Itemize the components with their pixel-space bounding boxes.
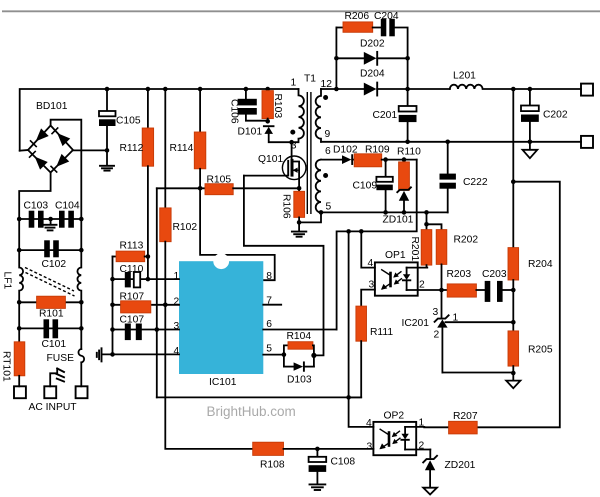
ground at pin 4 row (sideways) <box>97 348 102 361</box>
svg-text:C108: C108 <box>331 457 356 468</box>
capacitor C110 <box>125 272 140 287</box>
resistor R107 <box>121 301 151 313</box>
node: C102 rail right <box>79 248 84 253</box>
svg-text:C101: C101 <box>42 339 67 350</box>
wire: Q101 gate loop down to drive node <box>244 176 324 356</box>
ground below C108 <box>310 484 326 490</box>
wire: return rail (T1 pin9 to output) <box>321 141 581 143</box>
diode bottom-right arrow <box>50 154 69 173</box>
svg-text:D202: D202 <box>360 39 385 50</box>
svg-text:1: 1 <box>291 78 297 89</box>
svg-text:2: 2 <box>174 296 180 307</box>
diode D202 <box>336 52 407 65</box>
node: cap rail mid <box>48 217 53 222</box>
resistor R204 <box>508 182 519 290</box>
node: C202 top <box>528 87 533 92</box>
svg-text:IC201: IC201 <box>402 318 430 329</box>
AC input terminal 3 <box>76 386 88 398</box>
node: R103/C106/D101 <box>265 119 270 124</box>
svg-text:BrightHub.com: BrightHub.com <box>207 404 296 419</box>
wire: pin 6 row to ZD101 bus <box>263 329 336 331</box>
wire: pin 1 row <box>113 278 180 280</box>
node: bus/pin3 row <box>110 327 115 332</box>
optocoupler OP2 <box>373 422 430 455</box>
svg-text:LF1: LF1 <box>2 272 13 290</box>
resistor R111 <box>349 306 367 397</box>
wire: pin 5 stub <box>263 354 284 356</box>
svg-text:R207: R207 <box>453 411 478 422</box>
AC input terminal 1 <box>14 386 26 398</box>
svg-text:2: 2 <box>434 330 440 341</box>
wire: OP1 pin4 up to feed line <box>361 231 375 267</box>
resistor R113 <box>113 251 148 262</box>
wire: right snubber vertical <box>407 58 409 89</box>
line filter LF1 right winding <box>77 250 81 302</box>
node: snubber left bottom <box>334 87 339 92</box>
svg-text:OP1: OP1 <box>385 250 406 261</box>
svg-text:C203: C203 <box>482 269 507 280</box>
svg-text:C102: C102 <box>42 259 67 270</box>
phase dot secondary upper <box>323 95 328 100</box>
diode top-left arrow <box>30 128 49 147</box>
resistor R105 <box>157 184 299 195</box>
line filter LF1 left winding <box>19 250 23 302</box>
AC input terminal 2 <box>44 386 56 398</box>
wire: IC201 anode to R205 bottom <box>442 372 513 375</box>
fuse <box>78 328 84 386</box>
svg-text:AC INPUT: AC INPUT <box>29 402 78 413</box>
node: R104/D103 left <box>282 352 287 357</box>
resistor R101 <box>37 296 66 308</box>
svg-text:D101: D101 <box>238 127 263 138</box>
node: divider tap <box>511 320 516 325</box>
svg-text:R205: R205 <box>528 345 553 356</box>
svg-text:T1: T1 <box>304 74 316 85</box>
node: rail at C106 <box>244 87 249 92</box>
svg-text:D103: D103 <box>287 375 312 386</box>
svg-text:R111: R111 <box>370 327 393 338</box>
inductor L201 <box>450 85 581 89</box>
node: return at C201 <box>405 140 410 145</box>
wire: bridge right vertex to C105 node <box>73 149 107 151</box>
ground below C105 <box>100 150 114 170</box>
primary winding <box>292 89 304 142</box>
svg-text:L201: L201 <box>453 71 476 82</box>
svg-text:R103: R103 <box>272 94 283 119</box>
optocoupler OP1 <box>375 262 442 295</box>
svg-text:C110: C110 <box>120 264 144 275</box>
svg-text:4: 4 <box>366 418 372 429</box>
svg-text:C201: C201 <box>373 110 398 121</box>
diode bottom-left arrow <box>29 151 48 170</box>
node: R101 rail right <box>79 300 84 305</box>
node: return at C222 <box>445 140 450 145</box>
node: C203/R204 <box>511 288 516 293</box>
phase dot secondary lower <box>323 173 328 178</box>
node: rail at R201 <box>424 210 429 215</box>
wire: R105 row corner down (pin3 net bus) <box>156 188 158 397</box>
node: R104/D103 right (gate drive) <box>311 353 316 358</box>
svg-text:C222: C222 <box>463 177 488 188</box>
wire: R102 net down to R108 row <box>165 305 252 449</box>
mosfet Q101 <box>244 142 306 188</box>
wire: R106 bottom jog to T1 pin5 <box>299 212 321 222</box>
wire: C101 rail <box>19 302 81 328</box>
resistor R202 <box>427 224 447 290</box>
svg-text:6: 6 <box>266 319 272 330</box>
node: pin2 row / R102 bus <box>163 303 168 308</box>
node: Q101 source / R106 top <box>297 186 302 191</box>
node: L201 out / right bus <box>511 87 516 92</box>
svg-text:BD101: BD101 <box>36 101 68 112</box>
wire: pin3 net horizontal to R111 <box>157 396 361 398</box>
node: C105/bridge <box>105 148 110 153</box>
ground triangle below ZD201 <box>423 488 437 495</box>
wire: OP2 feed bus <box>349 231 374 427</box>
svg-text:FUSE: FUSE <box>47 353 75 364</box>
node: C101 rail left <box>17 326 22 331</box>
LF1 core dashed lines <box>25 268 75 297</box>
svg-text:R114: R114 <box>170 143 194 154</box>
node: rail at R114 <box>198 87 203 92</box>
node: pin3 row / pin3 bus <box>155 327 160 332</box>
top divider line <box>2 10 600 12</box>
zener ZD201 <box>423 456 437 487</box>
capacitor C107 <box>125 324 142 341</box>
node: R201/R202 tops <box>424 222 429 227</box>
wire: T1 pin12 to D204 row <box>321 88 336 90</box>
svg-text:ZD201: ZD201 <box>445 460 476 471</box>
transformer T1 <box>290 89 328 214</box>
svg-text:R109: R109 <box>365 145 390 156</box>
diode D103 <box>284 362 314 370</box>
resistor R109 <box>354 154 417 167</box>
node: R114/R105 <box>198 186 203 191</box>
svg-text:1: 1 <box>453 313 459 324</box>
node: cap rail left <box>17 217 22 222</box>
core lines <box>306 92 308 214</box>
svg-text:C104: C104 <box>55 201 80 212</box>
svg-text:R107: R107 <box>120 292 145 303</box>
node: rail at R102 bus <box>163 87 168 92</box>
svg-text:R203: R203 <box>447 269 472 280</box>
capacitor C202 <box>521 89 539 142</box>
wire: C102 rail <box>19 219 81 250</box>
svg-text:C202: C202 <box>543 110 568 121</box>
wire: OP2 pin2 to ZD201 <box>429 450 431 458</box>
svg-text:3: 3 <box>367 442 373 453</box>
ground triangle below C202 <box>523 142 538 158</box>
node: bus/pin2 row <box>110 303 115 308</box>
svg-text:2: 2 <box>419 280 425 291</box>
svg-text:C103: C103 <box>24 201 49 212</box>
wire: R101 rail <box>19 301 81 303</box>
bridge rectifier BD101 <box>28 126 73 173</box>
diode D102 <box>321 155 354 164</box>
node: T1 pin3 / Q101 drain <box>289 140 294 145</box>
node: rail at pin5 <box>319 210 324 215</box>
node: R106 bottom <box>297 220 302 225</box>
output terminal plus <box>581 84 593 96</box>
svg-text:R110: R110 <box>397 147 421 158</box>
resistor R110 <box>399 160 410 191</box>
capacitor C108 <box>309 449 327 484</box>
zener ZD101 <box>397 187 411 212</box>
svg-text:R106: R106 <box>281 194 292 219</box>
svg-text:D204: D204 <box>360 69 385 80</box>
diode top-right arrow <box>51 127 70 146</box>
wire: pin 2 row <box>113 304 180 306</box>
wire: pin 7 stub <box>263 304 281 306</box>
resistor R104 <box>284 342 314 367</box>
svg-text:R108: R108 <box>260 460 285 471</box>
wire: bridge bottom vertex down-left to cap rail <box>19 173 50 220</box>
capacitor C106 <box>238 89 268 121</box>
resistor R103 <box>262 89 273 121</box>
capacitor C201 <box>399 89 417 142</box>
node: R110 top <box>402 157 407 162</box>
node: bus/pin4 row <box>110 352 115 357</box>
node: OP1 feed at pin4 bus <box>359 229 364 234</box>
earth symbol at terminal 2 <box>50 369 64 387</box>
svg-text:R112: R112 <box>120 143 144 154</box>
resistor R114 <box>194 89 206 188</box>
capacitor C103 <box>29 211 44 228</box>
node: snubber left at D202 <box>334 56 339 61</box>
wire: pin8 loop from R114 bus <box>200 188 275 280</box>
wire: left bus <box>112 257 114 355</box>
svg-text:R204: R204 <box>528 259 553 270</box>
svg-text:ZD101: ZD101 <box>383 215 414 226</box>
node: top rail at C105 <box>105 87 110 92</box>
wire: OP2 pin1 to R207 <box>424 426 448 428</box>
svg-text:R101: R101 <box>39 309 64 320</box>
svg-text:2: 2 <box>419 441 425 452</box>
wire: pin 3 row <box>113 329 180 331</box>
wire: R102 top bus <box>164 89 166 208</box>
svg-text:C107: C107 <box>120 315 145 326</box>
capacitor C105 <box>99 89 116 150</box>
svg-text:C204: C204 <box>374 11 399 22</box>
resistor R112 <box>142 89 153 257</box>
svg-text:C109: C109 <box>353 181 378 192</box>
svg-text:Q101: Q101 <box>258 154 283 165</box>
svg-text:3: 3 <box>174 321 180 332</box>
resistor R106 <box>294 188 305 222</box>
node: R113/R112 <box>146 254 151 259</box>
node: return at C202 <box>528 140 533 145</box>
capacitor C104 <box>59 211 74 228</box>
svg-text:8: 8 <box>266 271 272 282</box>
ground triangle below R205 <box>506 373 520 388</box>
svg-text:C106: C106 <box>229 99 240 124</box>
wire: far right bus to R207 row <box>477 182 560 428</box>
diode D204 <box>336 83 449 96</box>
wire: top AC rail <box>20 89 299 151</box>
svg-text:R102: R102 <box>173 222 198 233</box>
capacitor C109 <box>376 160 392 213</box>
node: bus/pin1 row <box>110 277 115 282</box>
ground at C103/C104 midpoint <box>44 219 57 230</box>
resistor R205 <box>508 331 519 373</box>
node: C102 rail left <box>17 248 22 253</box>
secondary upper winding <box>316 89 321 142</box>
node: C108 top <box>315 447 320 452</box>
node: rail at ZD101 <box>402 210 407 215</box>
svg-text:IC101: IC101 <box>209 377 237 388</box>
node: R205 bottom <box>511 371 516 376</box>
node: R101 rail left <box>17 300 22 305</box>
node: rail at R112 <box>146 87 151 92</box>
svg-text:9: 9 <box>325 129 331 140</box>
wire: bridge top vertex to right-down to cap rail <box>51 120 82 219</box>
resistor R108 <box>253 442 374 455</box>
svg-text:R202: R202 <box>454 235 479 246</box>
shunt regulator IC201 <box>435 290 514 373</box>
svg-text:OP2: OP2 <box>384 411 405 422</box>
capacitor C203 <box>485 281 514 302</box>
wire: OP1 pin3 to R111 <box>361 290 375 307</box>
node: R202 bottom / pin2 row <box>439 288 444 293</box>
resistor R206 <box>336 22 380 32</box>
node: OP1 feed at pin3 bus <box>346 229 351 234</box>
node: D202 right <box>405 56 410 61</box>
node: pin1 row / R112 bus <box>146 277 151 282</box>
node: rail at R103 <box>265 87 270 92</box>
svg-text:R104: R104 <box>287 331 312 342</box>
node: D204/C201 <box>405 87 410 92</box>
secondary lower winding <box>316 160 321 213</box>
thermistor RT101 <box>14 328 25 386</box>
resistor R201 <box>421 212 432 267</box>
wire: stub to bridge left vertex <box>20 149 28 152</box>
output terminal minus <box>581 136 593 148</box>
node: rail at C109 <box>383 210 388 215</box>
phase dot primary <box>290 130 295 135</box>
wire: snubber left vertical <box>335 28 337 90</box>
wire: R204/R205 divider <box>512 290 514 331</box>
svg-text:R113: R113 <box>120 241 144 252</box>
svg-text:R105: R105 <box>207 175 232 186</box>
svg-text:R201: R201 <box>409 237 420 262</box>
node: pin3 net / OP2 bus <box>346 395 351 400</box>
svg-text:5: 5 <box>266 344 272 355</box>
capacitor C222 <box>440 142 456 213</box>
wire: R110 net down to OP1 feed line <box>337 160 417 330</box>
resistor R207 <box>449 421 478 434</box>
svg-text:6: 6 <box>325 146 331 157</box>
svg-text:R206: R206 <box>345 11 370 22</box>
node: right bus split <box>511 179 516 184</box>
wire: pin 4 row <box>102 353 179 355</box>
wire: secondary ground rail (pin5) <box>321 211 448 213</box>
wire: right output bus down <box>512 89 514 182</box>
ground below R106 <box>292 222 306 236</box>
svg-text:3: 3 <box>433 307 439 318</box>
svg-text:5: 5 <box>326 202 332 213</box>
svg-text:RT101: RT101 <box>1 351 12 382</box>
svg-text:C105: C105 <box>116 116 141 127</box>
wire: R112 bus to pin1 row <box>147 257 149 280</box>
diode D101 <box>264 126 292 142</box>
resistor R102 <box>160 208 171 305</box>
resistor R203 <box>442 284 485 297</box>
svg-text:4: 4 <box>174 346 180 357</box>
capacitor C204 <box>381 19 408 59</box>
node: C101 rail right <box>79 326 84 331</box>
svg-text:1: 1 <box>174 271 180 282</box>
capacitor C101 <box>44 319 59 338</box>
node: R109 out / C109 <box>383 157 388 162</box>
capacitor C102 <box>44 240 59 257</box>
wire: C103/C104 rail <box>19 218 81 220</box>
IC101 body <box>179 253 263 374</box>
node: cap rail right <box>79 217 84 222</box>
